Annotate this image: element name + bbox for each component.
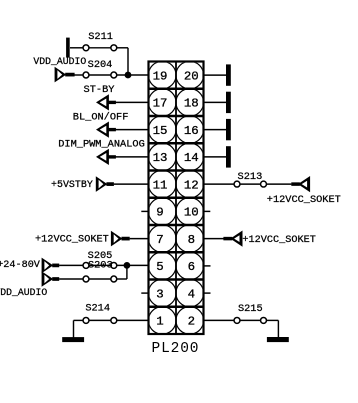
svg-text:DIM_PWM_ANALOG: DIM_PWM_ANALOG: [58, 139, 145, 151]
svg-text:S214: S214: [85, 303, 110, 315]
svg-text:20: 20: [184, 69, 199, 83]
svg-text:+12VCC_SOKET: +12VCC_SOKET: [267, 194, 341, 206]
svg-text:+24-80V: +24-80V: [0, 259, 41, 271]
svg-text:16: 16: [184, 124, 199, 138]
svg-text:18: 18: [184, 97, 199, 111]
svg-text:S203: S203: [88, 259, 113, 271]
svg-text:11: 11: [153, 178, 168, 192]
svg-text:PL200: PL200: [152, 341, 199, 357]
svg-text:+5VSTBY: +5VSTBY: [51, 179, 93, 191]
svg-text:2: 2: [188, 315, 195, 329]
svg-text:19: 19: [153, 69, 168, 83]
svg-text:7: 7: [156, 233, 163, 247]
svg-text:5: 5: [156, 260, 163, 274]
svg-text:12: 12: [184, 178, 199, 192]
svg-text:4: 4: [188, 287, 195, 301]
svg-text:+12VCC_SOKET: +12VCC_SOKET: [35, 234, 109, 246]
svg-text:9: 9: [156, 206, 163, 220]
svg-text:S215: S215: [238, 303, 263, 315]
svg-text:S211: S211: [88, 31, 113, 43]
svg-text:8: 8: [188, 233, 195, 247]
svg-text:1: 1: [156, 315, 163, 329]
svg-text:17: 17: [153, 97, 168, 111]
svg-text:+12VCC_SOKET: +12VCC_SOKET: [242, 234, 316, 246]
svg-text:S204: S204: [88, 59, 113, 71]
svg-text:VDD_AUDIO: VDD_AUDIO: [33, 56, 86, 68]
svg-text:BL_ON/OFF: BL_ON/OFF: [73, 112, 129, 124]
svg-text:15: 15: [153, 124, 168, 138]
svg-text:VDD_AUDIO: VDD_AUDIO: [0, 287, 47, 299]
svg-text:ST-BY: ST-BY: [84, 84, 115, 96]
svg-text:3: 3: [156, 287, 163, 301]
svg-text:13: 13: [153, 151, 168, 165]
svg-text:6: 6: [188, 260, 195, 274]
svg-text:S213: S213: [238, 171, 263, 183]
svg-text:10: 10: [184, 206, 199, 220]
svg-text:14: 14: [184, 151, 199, 165]
